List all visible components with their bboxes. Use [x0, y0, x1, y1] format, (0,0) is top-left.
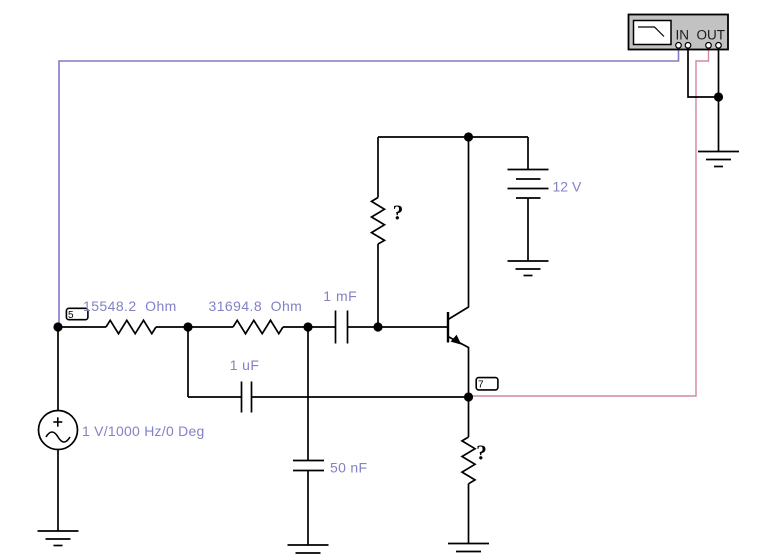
- resistor R1 15548.2 Ohm: [106, 320, 156, 333]
- transistor Q1 emitter lead: [448, 337, 469, 397]
- svg-text:IN: IN: [676, 28, 690, 43]
- wire: node A to R2: [188, 326, 233, 328]
- battery V2 plates: [508, 170, 549, 199]
- node 5 dot: [53, 322, 62, 331]
- svg-text:?: ?: [476, 440, 487, 464]
- svg-text:31694.8 Ohm: 31694.8 Ohm: [209, 298, 303, 314]
- Bode plotter terminal OUT-: [716, 43, 722, 49]
- junction dot at Bode ground node: [714, 92, 723, 101]
- ground (emitter resistor): [448, 544, 489, 552]
- svg-text:?: ?: [393, 200, 404, 224]
- wire: resistor ?1 down to base node: [377, 244, 379, 327]
- svg-text:7: 7: [478, 380, 484, 391]
- wire: C1 to base node: [348, 326, 379, 328]
- wire: source down to ground: [57, 450, 59, 532]
- AC source V1 circle: [39, 411, 78, 450]
- wire: R?2 down to ground: [468, 484, 470, 544]
- svg-text:OUT: OUT: [697, 28, 726, 43]
- AC source plus sign: [53, 417, 62, 426]
- wire: Bode OUT- down to ground junction and on to ground: [718, 48, 720, 152]
- Bode plotter terminal OUT+: [706, 43, 712, 49]
- wire: base node to transistor base: [378, 326, 448, 328]
- capacitor C2 1 uF plates: [242, 382, 252, 413]
- wire: node 5 to R1: [58, 326, 106, 328]
- Bode plotter U1 body: [629, 15, 729, 50]
- transistor Q1 collector lead: [448, 137, 469, 320]
- wire: Bode IN- down and right to ground junction: [688, 48, 719, 97]
- node at collector/top rail: [464, 132, 473, 141]
- svg-text:1 V/1000 Hz/0 Deg: 1 V/1000 Hz/0 Deg: [82, 423, 205, 439]
- wire: 1uF branch left segment: [188, 396, 242, 398]
- wire: red wire from Bode plotter OUT+ to node 7: [469, 48, 709, 396]
- svg-text:12 V: 12 V: [553, 179, 582, 195]
- capacitor C3 50 nF plates: [293, 461, 324, 471]
- svg-text:1 mF: 1 mF: [323, 288, 357, 304]
- wire: R1 to node A: [156, 326, 188, 328]
- ground (50nF): [288, 545, 329, 553]
- Bode plotter screen: [634, 21, 672, 45]
- node 7 label box: [476, 378, 498, 390]
- wire: top rail from R?1 to battery: [378, 136, 528, 138]
- svg-text:5: 5: [68, 310, 74, 321]
- wire: node B to C1: [308, 326, 336, 328]
- ground (battery): [508, 261, 549, 276]
- wire: 1uF branch right segment to node 7: [252, 396, 469, 398]
- wire: node A down to 1uF branch: [187, 327, 189, 397]
- resistor R2 31694.8 Ohm: [233, 320, 283, 333]
- Bode plotter response curve: [638, 27, 664, 37]
- wire: node 7 down to R?2: [468, 397, 470, 437]
- battery V2 12V: top wire: [527, 137, 529, 170]
- capacitor C1 1 mF plates: [336, 311, 348, 344]
- base node dot: [373, 322, 382, 331]
- svg-text:50 nF: 50 nF: [330, 460, 367, 476]
- wire: blue wire from Bode plotter IN+ to node 5: [59, 48, 679, 327]
- ground (Bode plotter): [698, 152, 739, 167]
- transistor Q1 base bar: [447, 312, 449, 343]
- wire: top rail down to resistor ?1: [377, 137, 379, 198]
- resistor R?1 (bias resistor, vertical): [372, 198, 385, 245]
- wire: battery down to ground: [527, 198, 529, 261]
- wire: node B down to 50nF: [307, 327, 309, 461]
- AC source sine wave: [46, 432, 70, 442]
- Bode plotter terminal IN-: [685, 43, 691, 49]
- transistor Q1 emitter arrow: [451, 335, 462, 345]
- wire: 50nF down to ground: [307, 471, 309, 546]
- ground (source): [38, 531, 79, 546]
- wire: node 5 down to source: [57, 327, 59, 411]
- Bode plotter terminal IN+: [676, 43, 682, 49]
- node 7 dot (emitter node): [464, 392, 473, 401]
- node A dot: [183, 322, 192, 331]
- node 5 label box: [66, 308, 88, 319]
- resistor R?2 (emitter resistor, vertical): [462, 437, 475, 484]
- wire: R2 to node B: [283, 326, 308, 328]
- node B dot: [303, 322, 312, 331]
- svg-text:15548.2 Ohm: 15548.2 Ohm: [83, 298, 177, 314]
- svg-text:1 uF: 1 uF: [230, 357, 260, 373]
